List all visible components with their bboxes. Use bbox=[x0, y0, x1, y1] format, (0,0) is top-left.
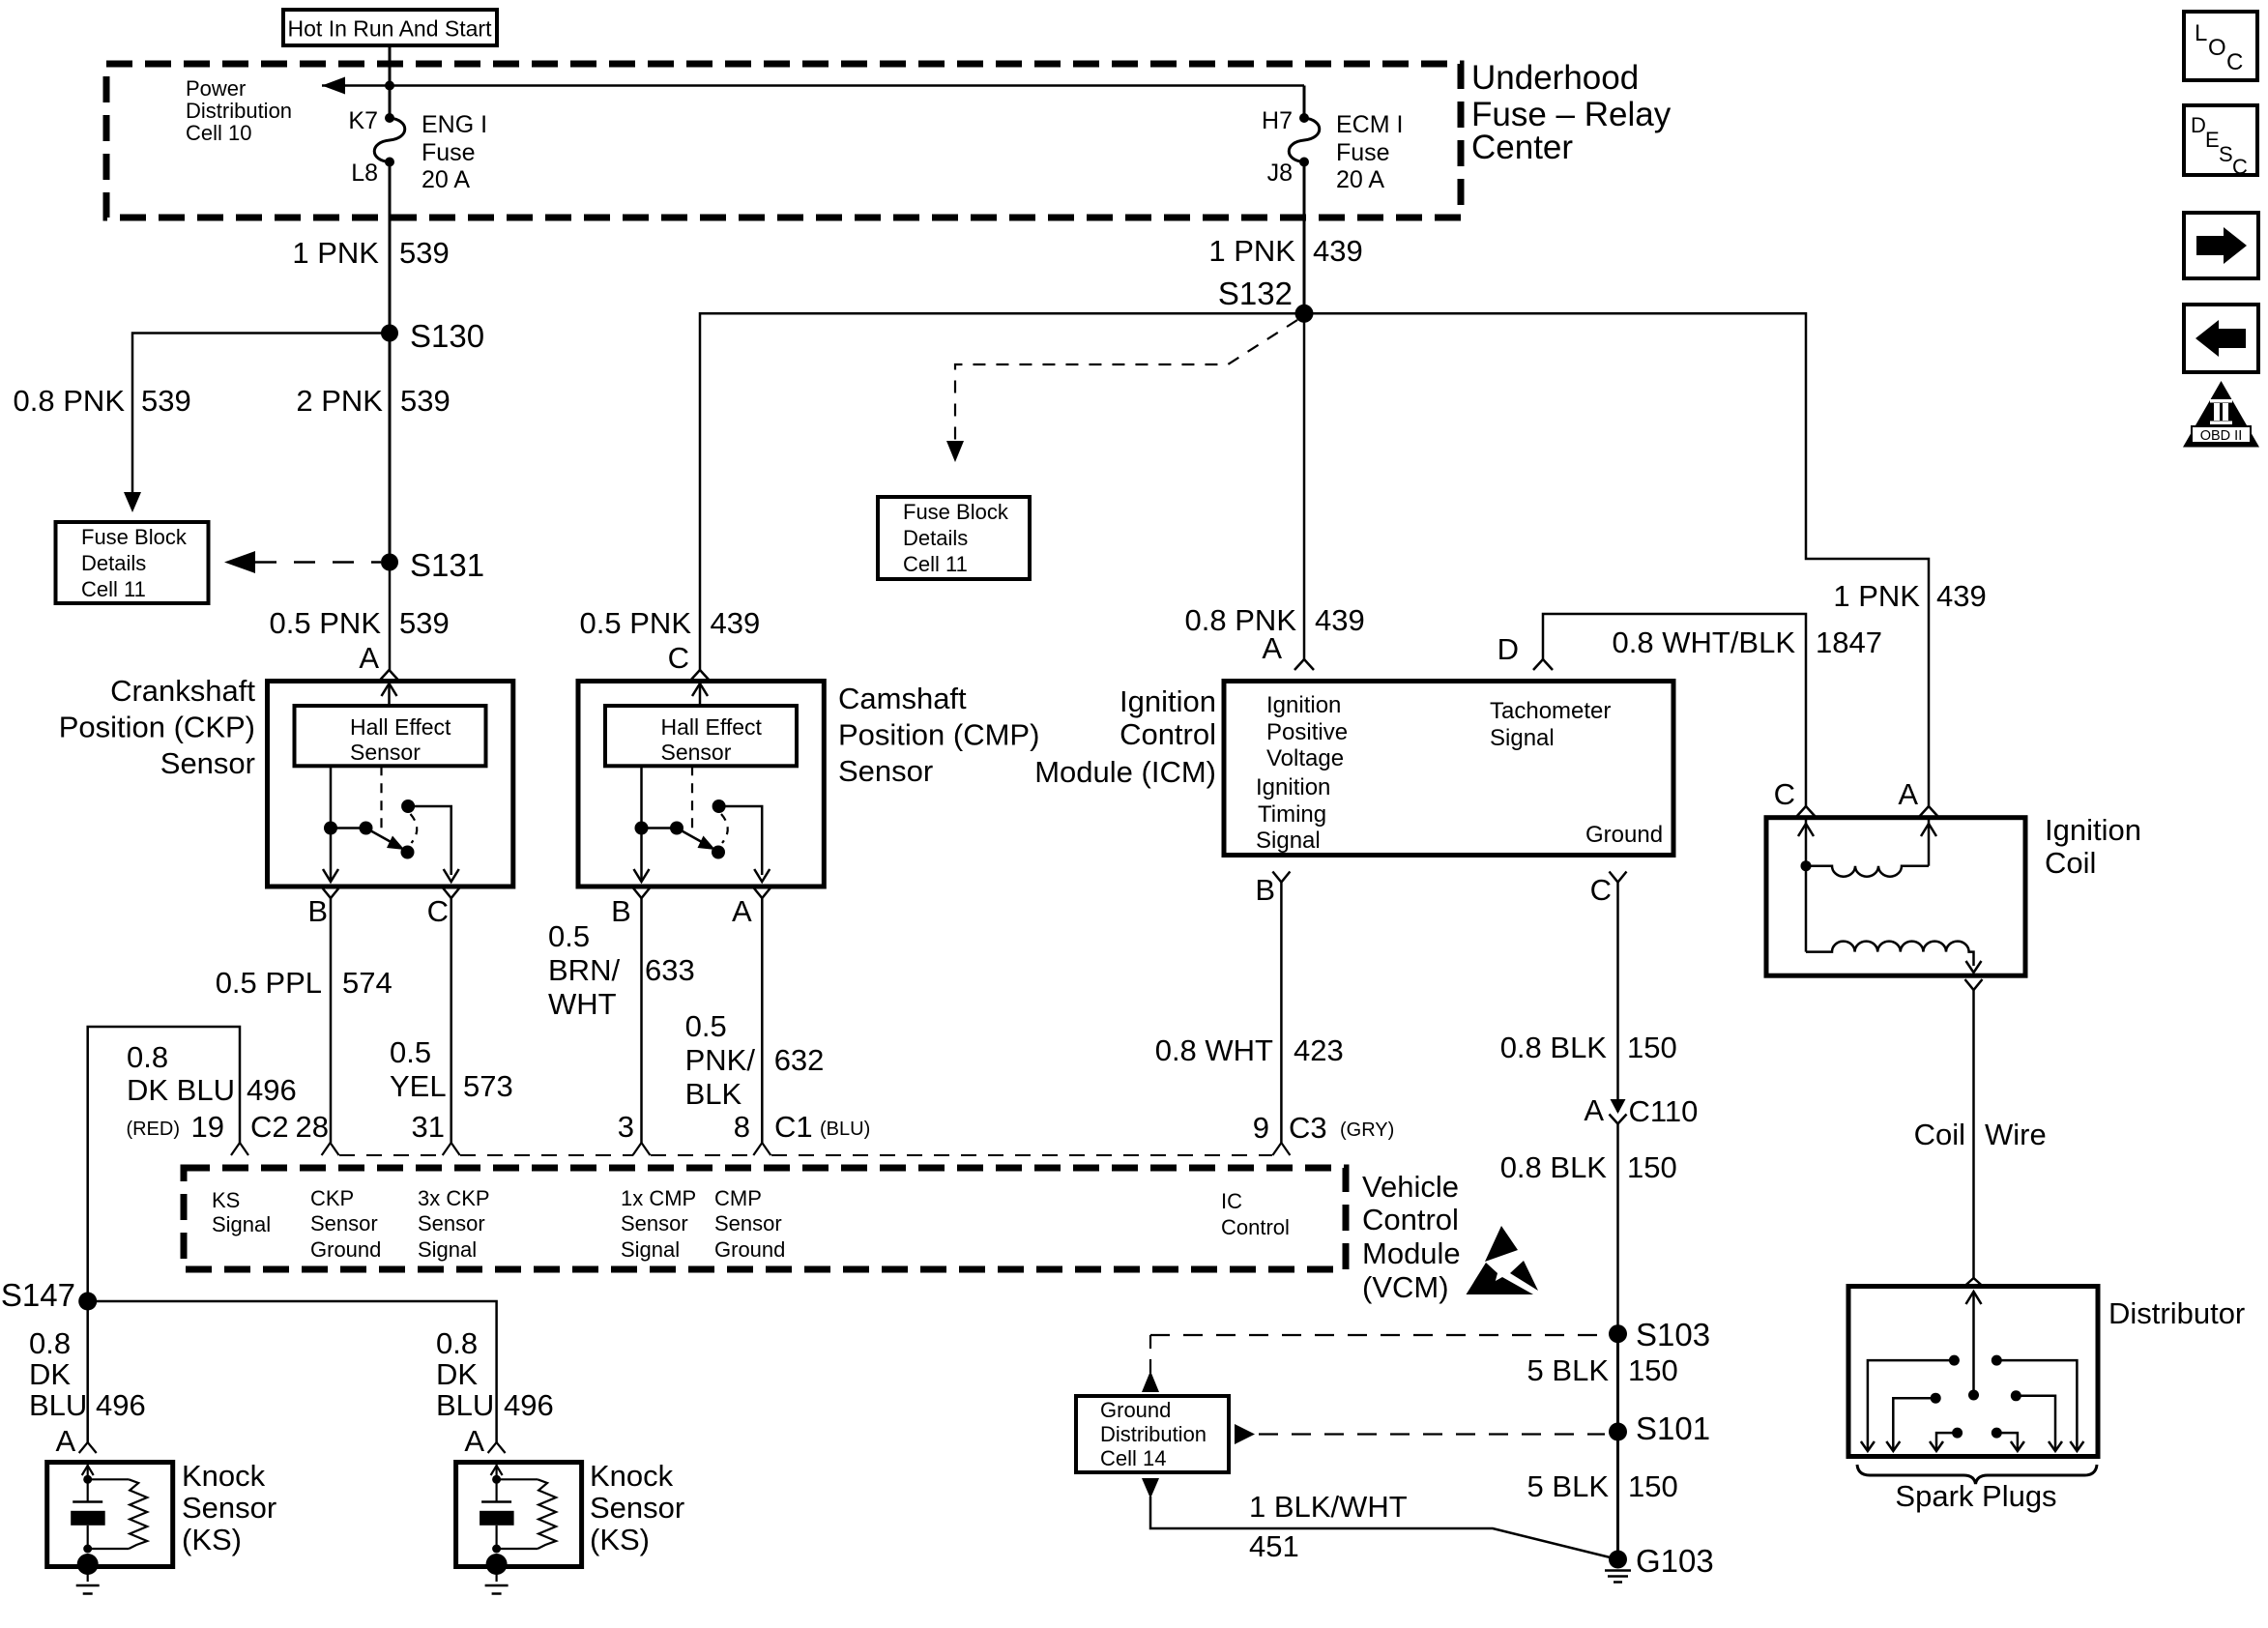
svg-text:Fuse Block: Fuse Block bbox=[903, 500, 1009, 524]
svg-text:Signal: Signal bbox=[212, 1212, 271, 1236]
svg-text:C: C bbox=[1590, 873, 1612, 907]
pin number labels along VCM top bbox=[126, 1110, 870, 1144]
box: Fuse Block Details Cell 11 (middle) bbox=[878, 497, 1030, 579]
svg-text:20 A: 20 A bbox=[422, 166, 470, 193]
svg-text:D: D bbox=[1497, 632, 1519, 666]
svg-text:(VCM): (VCM) bbox=[1362, 1270, 1449, 1304]
svg-text:PNK/: PNK/ bbox=[685, 1043, 756, 1077]
svg-text:Signal: Signal bbox=[1256, 828, 1321, 854]
svg-text:Cell 10: Cell 10 bbox=[186, 121, 251, 145]
svg-text:0.8 BLK: 0.8 BLK bbox=[1500, 1031, 1608, 1064]
svg-text:(GRY): (GRY) bbox=[1340, 1119, 1394, 1141]
svg-text:DK: DK bbox=[29, 1357, 71, 1391]
wire: coil secondary to distributor (Coil Wire) bbox=[1914, 979, 2047, 1278]
svg-text:Hall Effect: Hall Effect bbox=[350, 714, 451, 740]
svg-text:A: A bbox=[1898, 777, 1918, 811]
sensor: Crankshaft Position (CKP) Sensor bbox=[268, 641, 513, 887]
svg-text:Ground: Ground bbox=[1585, 822, 1663, 848]
svg-text:B: B bbox=[611, 894, 631, 928]
svg-text:H7: H7 bbox=[1262, 107, 1293, 134]
svg-text:BLU: BLU bbox=[29, 1388, 87, 1422]
svg-text:1 PNK: 1 PNK bbox=[1208, 234, 1295, 268]
svg-text:423: 423 bbox=[1294, 1033, 1344, 1067]
wire: S147 across to right knock sensor bbox=[88, 1301, 497, 1442]
svg-text:0.8: 0.8 bbox=[29, 1326, 71, 1360]
svg-text:CKP: CKP bbox=[310, 1186, 354, 1210]
sensor: Knock Sensor (KS) left bbox=[29, 1326, 146, 1422]
svg-text:(KS): (KS) bbox=[182, 1523, 242, 1556]
icon: OBD II triangle bbox=[2183, 381, 2259, 448]
svg-text:0.8 WHT/BLK: 0.8 WHT/BLK bbox=[1613, 625, 1796, 659]
label: Knock Sensor (KS) right bbox=[590, 1459, 684, 1556]
svg-text:0.8 BLK: 0.8 BLK bbox=[1500, 1150, 1608, 1184]
svg-text:C: C bbox=[2232, 155, 2248, 179]
connector carets into VCM (pins 19,28,31,3,8,9) bbox=[231, 1143, 1290, 1155]
wire: hot feed from label box down to fuse ENG I bbox=[389, 45, 392, 118]
svg-text:0.5 PNK: 0.5 PNK bbox=[270, 606, 382, 640]
svg-text:C: C bbox=[668, 641, 689, 675]
component: Distributor bbox=[1848, 1278, 2098, 1457]
node S132 bbox=[1218, 276, 1314, 323]
svg-text:439: 439 bbox=[1315, 603, 1365, 637]
svg-text:Sensor: Sensor bbox=[590, 1491, 684, 1525]
svg-text:A: A bbox=[732, 894, 752, 928]
wire: S103 to S101 (5 BLK 150) bbox=[1527, 1334, 1678, 1432]
label: Ignition Control Module (ICM) bbox=[1034, 684, 1216, 789]
svg-text:A: A bbox=[1262, 631, 1282, 665]
svg-text:Wire: Wire bbox=[1985, 1118, 2047, 1151]
svg-text:19: 19 bbox=[191, 1110, 224, 1144]
node G103 with ground symbol bbox=[1605, 1543, 1714, 1583]
svg-text:Sensor: Sensor bbox=[838, 754, 933, 788]
svg-text:3: 3 bbox=[618, 1110, 634, 1144]
svg-text:Module (ICM): Module (ICM) bbox=[1034, 755, 1216, 789]
svg-text:ECM I: ECM I bbox=[1336, 111, 1403, 138]
svg-text:WHT: WHT bbox=[548, 987, 617, 1021]
svg-text:0.5: 0.5 bbox=[548, 919, 590, 953]
svg-text:633: 633 bbox=[645, 953, 695, 987]
brace + label: Spark Plugs bbox=[1857, 1465, 2097, 1513]
svg-text:1 BLK/WHT: 1 BLK/WHT bbox=[1249, 1490, 1408, 1524]
svg-text:2 PNK: 2 PNK bbox=[296, 384, 383, 418]
svg-text:BRN/: BRN/ bbox=[548, 953, 620, 987]
svg-text:496: 496 bbox=[504, 1388, 554, 1422]
svg-text:Sensor: Sensor bbox=[160, 746, 255, 780]
component: Ignition Coil bbox=[1766, 777, 2025, 975]
svg-text:G103: G103 bbox=[1636, 1543, 1714, 1579]
svg-text:C3: C3 bbox=[1289, 1111, 1327, 1145]
VCM internal pin function labels bbox=[212, 1186, 1290, 1262]
wire: ICM B to VCM IC Control (0.8 WHT 423) bbox=[1155, 872, 1344, 1144]
svg-text:(BLU): (BLU) bbox=[820, 1119, 870, 1140]
label: Camshaft Position (CMP) Sensor bbox=[838, 682, 1039, 788]
connector forks below CMP: pins B and A bbox=[611, 887, 771, 928]
svg-text:ENG I: ENG I bbox=[422, 111, 487, 138]
fuse F2: ECM I Fuse 20 A (H7/J8) bbox=[1262, 86, 1403, 194]
svg-text:Coil: Coil bbox=[1914, 1118, 1965, 1151]
svg-text:Ground: Ground bbox=[714, 1237, 785, 1262]
svg-text:Ground: Ground bbox=[310, 1237, 381, 1262]
svg-text:E: E bbox=[2205, 128, 2220, 152]
wire: S132 branch left, down to CMP pin C bbox=[700, 313, 1304, 670]
svg-text:451: 451 bbox=[1249, 1529, 1299, 1563]
svg-text:439: 439 bbox=[1313, 234, 1363, 268]
svg-text:1 PNK: 1 PNK bbox=[1833, 579, 1920, 613]
svg-text:S: S bbox=[2219, 142, 2233, 166]
svg-text:C110: C110 bbox=[1629, 1094, 1699, 1128]
wire: VCM pin 19 up-left-down to S147 and knock sensors bbox=[88, 1027, 240, 1301]
svg-text:Ignition: Ignition bbox=[2045, 813, 2141, 847]
svg-text:Underhood: Underhood bbox=[1471, 59, 1639, 97]
label: 0.5 PNK 439 bbox=[580, 606, 761, 640]
svg-text:Control: Control bbox=[1119, 717, 1216, 751]
label: Underhood Fuse-Relay Center bbox=[1471, 59, 1672, 166]
svg-text:0.8: 0.8 bbox=[436, 1326, 478, 1360]
svg-text:S131: S131 bbox=[410, 547, 484, 583]
label: 2 PNK 539 bbox=[296, 384, 450, 418]
svg-text:1 PNK: 1 PNK bbox=[292, 236, 379, 270]
svg-text:CMP: CMP bbox=[714, 1186, 762, 1210]
svg-text:Crankshaft: Crankshaft bbox=[110, 674, 255, 708]
wire: CMP A to VCM pin 8 (0.5 PNK/BLK 632) bbox=[761, 898, 764, 1143]
svg-text:Ignition: Ignition bbox=[1119, 684, 1216, 718]
svg-text:OBD II: OBD II bbox=[2200, 428, 2243, 444]
svg-text:150: 150 bbox=[1628, 1469, 1678, 1503]
ESD static-sensitive symbol bbox=[1467, 1226, 1539, 1294]
label: 0.5 PNK 539 bbox=[270, 606, 450, 640]
svg-text:0.5: 0.5 bbox=[685, 1009, 727, 1043]
box: Ground Distribution Cell 14 bbox=[1076, 1396, 1229, 1472]
node: Hot In Run And Start feed label box bbox=[283, 10, 497, 45]
svg-text:L: L bbox=[2195, 20, 2207, 46]
svg-text:Hot In Run And Start: Hot In Run And Start bbox=[288, 16, 493, 42]
svg-text:C2: C2 bbox=[250, 1110, 289, 1144]
svg-text:J8: J8 bbox=[1267, 160, 1293, 187]
svg-text:Fuse Block: Fuse Block bbox=[81, 525, 188, 549]
connector C110 (pin A) bbox=[1584, 1093, 1698, 1128]
svg-text:A: A bbox=[1584, 1093, 1604, 1127]
connector forks below CKP: pins B and C bbox=[307, 887, 459, 928]
node S101 bbox=[1609, 1410, 1710, 1446]
svg-text:Spark Plugs: Spark Plugs bbox=[1895, 1479, 2056, 1513]
svg-text:Knock: Knock bbox=[590, 1459, 674, 1493]
svg-text:150: 150 bbox=[1627, 1031, 1677, 1064]
svg-text:Sensor: Sensor bbox=[350, 740, 421, 765]
svg-text:DK BLU: DK BLU bbox=[127, 1073, 235, 1107]
wire: S132 down to ICM pin A (0.8 PNK 439) bbox=[1303, 313, 1306, 659]
svg-text:B: B bbox=[307, 894, 328, 928]
box: Fuse Block Details Cell 11 (left) bbox=[56, 522, 209, 603]
svg-text:28: 28 bbox=[296, 1110, 329, 1144]
svg-text:Details: Details bbox=[903, 526, 968, 550]
svg-text:O: O bbox=[2208, 35, 2226, 61]
wire: ECM I fuse output down to S132 bbox=[1303, 162, 1306, 314]
svg-text:439: 439 bbox=[711, 606, 761, 640]
svg-text:1x CMP: 1x CMP bbox=[621, 1186, 696, 1210]
svg-text:Fuse: Fuse bbox=[422, 139, 476, 166]
svg-text:5 BLK: 5 BLK bbox=[1527, 1353, 1610, 1387]
svg-text:S130: S130 bbox=[410, 318, 484, 354]
svg-text:S101: S101 bbox=[1636, 1410, 1710, 1446]
svg-text:KS: KS bbox=[212, 1188, 240, 1212]
module: Ignition Control Module (ICM) bbox=[1224, 631, 1673, 856]
svg-text:Knock: Knock bbox=[182, 1459, 266, 1493]
label: Knock Sensor (KS) left bbox=[182, 1459, 276, 1556]
svg-text:Distribution: Distribution bbox=[186, 99, 292, 123]
svg-text:S147: S147 bbox=[1, 1277, 75, 1313]
svg-text:B: B bbox=[1255, 873, 1275, 907]
svg-text:Ground: Ground bbox=[1100, 1398, 1171, 1422]
svg-text:(KS): (KS) bbox=[590, 1523, 650, 1556]
underhood fuse-relay center dashed enclosure bbox=[106, 64, 1461, 218]
svg-text:3x CKP: 3x CKP bbox=[418, 1186, 490, 1210]
svg-text:0.5 PPL: 0.5 PPL bbox=[216, 966, 322, 1000]
svg-text:Position (CKP): Position (CKP) bbox=[59, 711, 255, 744]
icon: right arrow box bbox=[2184, 213, 2258, 278]
svg-text:Hall Effect: Hall Effect bbox=[661, 714, 763, 740]
wire: branch from S130 to Fuse Block Details (left) bbox=[124, 334, 390, 513]
svg-text:K7: K7 bbox=[348, 107, 378, 134]
dashed connector face line between VCM pins bbox=[339, 1154, 1272, 1156]
dashed drop from S132 to Fuse Block Details (middle) bbox=[946, 320, 1297, 462]
svg-text:Cell 11: Cell 11 bbox=[903, 552, 968, 576]
svg-text:BLK: BLK bbox=[685, 1077, 742, 1111]
svg-text:Module: Module bbox=[1362, 1236, 1461, 1270]
svg-text:Tachometer: Tachometer bbox=[1490, 698, 1611, 724]
svg-text:A: A bbox=[464, 1424, 484, 1458]
svg-text:C: C bbox=[1774, 777, 1795, 811]
svg-text:539: 539 bbox=[399, 606, 450, 640]
node S147 bbox=[1, 1277, 97, 1313]
svg-text:Control: Control bbox=[1221, 1215, 1290, 1239]
svg-text:Signal: Signal bbox=[418, 1237, 477, 1262]
icon: DESC box bbox=[2184, 105, 2257, 179]
svg-text:Vehicle: Vehicle bbox=[1362, 1170, 1459, 1204]
svg-text:0.8: 0.8 bbox=[127, 1040, 168, 1074]
svg-text:Control: Control bbox=[1362, 1203, 1459, 1236]
svg-text:0.8 PNK: 0.8 PNK bbox=[14, 384, 126, 418]
icon: LOC box bbox=[2184, 12, 2257, 80]
svg-text:Coil: Coil bbox=[2045, 846, 2096, 880]
wire: S130 down to S131 bbox=[389, 334, 392, 563]
wire: ICM C ground wire (0.8 BLK 150) bbox=[1500, 872, 1677, 1113]
node S103 bbox=[1609, 1317, 1710, 1352]
node S131 with dashed arrow to fuse block bbox=[224, 547, 484, 583]
svg-text:Sensor: Sensor bbox=[714, 1211, 782, 1236]
svg-text:150: 150 bbox=[1627, 1150, 1677, 1184]
label: Ignition Coil bbox=[2045, 813, 2141, 880]
svg-text:8: 8 bbox=[734, 1110, 750, 1144]
svg-text:Center: Center bbox=[1471, 129, 1573, 166]
svg-text:Sensor: Sensor bbox=[182, 1491, 276, 1525]
svg-text:DK: DK bbox=[436, 1357, 478, 1391]
svg-text:A: A bbox=[56, 1424, 76, 1458]
wire: ICM pin D up and over to coil pin C (0.8 WHT/BLK 1847) bbox=[1497, 614, 1882, 806]
svg-text:0.8 WHT: 0.8 WHT bbox=[1155, 1033, 1273, 1067]
svg-text:439: 439 bbox=[1936, 579, 1987, 613]
svg-text:539: 539 bbox=[141, 384, 191, 418]
label: 1 PNK 439 (center) bbox=[1208, 234, 1362, 268]
wire: S131 down to CKP sensor pin A bbox=[389, 563, 392, 671]
svg-text:D: D bbox=[2191, 113, 2206, 137]
svg-text:Sensor: Sensor bbox=[418, 1211, 485, 1236]
label: 1 PNK 539 bbox=[292, 236, 449, 270]
svg-text:31: 31 bbox=[412, 1110, 445, 1144]
wire: S147 down to left knock sensor bbox=[86, 1301, 89, 1442]
wire: ground distribution to G103 (1 BLK/WHT 451) bbox=[1142, 1478, 1618, 1563]
svg-text:1847: 1847 bbox=[1816, 625, 1882, 659]
svg-text:539: 539 bbox=[400, 384, 451, 418]
svg-text:BLU: BLU bbox=[436, 1388, 494, 1422]
svg-text:0.5 PNK: 0.5 PNK bbox=[580, 606, 692, 640]
svg-text:573: 573 bbox=[463, 1069, 513, 1103]
svg-text:539: 539 bbox=[399, 236, 450, 270]
svg-text:Ignition: Ignition bbox=[1266, 692, 1341, 718]
fuse F1: ENG I Fuse 20 A (K7/L8) bbox=[348, 107, 487, 193]
wire: CKP C to VCM pin 31 (0.5 YEL 573) bbox=[450, 898, 452, 1143]
svg-text:Cell 11: Cell 11 bbox=[81, 577, 146, 601]
svg-text:Signal: Signal bbox=[1490, 725, 1555, 751]
dashed link: ground distribution up to S103 bbox=[1142, 1335, 1605, 1392]
svg-text:0.5: 0.5 bbox=[390, 1035, 431, 1069]
svg-text:C: C bbox=[427, 894, 449, 928]
svg-text:20 A: 20 A bbox=[1336, 166, 1384, 193]
svg-text:YEL: YEL bbox=[390, 1069, 447, 1103]
svg-text:C1: C1 bbox=[774, 1110, 813, 1144]
wire: S101 to G103 (5 BLK 150) bbox=[1527, 1432, 1678, 1559]
wire: CMP B to VCM pin 3 (0.5 BRN/WHT 633) bbox=[640, 898, 643, 1143]
svg-text:Timing: Timing bbox=[1258, 801, 1326, 828]
wire: ENG I fuse output down to S130 bbox=[389, 162, 392, 334]
svg-text:Details: Details bbox=[81, 551, 146, 575]
module: Vehicle Control Module (VCM) dashed outline bbox=[184, 1168, 1346, 1269]
svg-text:Sensor: Sensor bbox=[310, 1211, 378, 1236]
wire: arrow line to Power Distribution (points left) bbox=[322, 77, 1304, 95]
icon: left arrow box bbox=[2184, 305, 2258, 372]
svg-text:Camshaft: Camshaft bbox=[838, 682, 967, 715]
label: 0.8 PNK 539 bbox=[14, 384, 191, 418]
svg-text:C: C bbox=[2226, 49, 2243, 75]
label: Vehicle Control Module (VCM) bbox=[1362, 1170, 1461, 1304]
svg-text:Positive: Positive bbox=[1266, 719, 1348, 745]
svg-text:9: 9 bbox=[1253, 1111, 1269, 1145]
svg-text:Cell 14: Cell 14 bbox=[1100, 1446, 1166, 1470]
wire: CKP B to VCM pin 28 (0.5 PPL 574) bbox=[330, 898, 333, 1143]
dashed link: ground distribution right to S101 bbox=[1235, 1424, 1605, 1444]
svg-text:Sensor: Sensor bbox=[661, 740, 732, 765]
label: Crankshaft Position (CKP) Sensor bbox=[59, 674, 256, 780]
svg-text:S103: S103 bbox=[1636, 1317, 1710, 1352]
svg-text:5 BLK: 5 BLK bbox=[1527, 1469, 1610, 1503]
svg-text:632: 632 bbox=[774, 1043, 825, 1077]
svg-text:S132: S132 bbox=[1218, 276, 1293, 311]
wire: C110 down to S103 (0.8 BLK 150) bbox=[1500, 1124, 1677, 1334]
svg-text:IC: IC bbox=[1221, 1189, 1242, 1213]
svg-text:Sensor: Sensor bbox=[621, 1211, 688, 1236]
svg-text:150: 150 bbox=[1628, 1353, 1678, 1387]
sensor: Camshaft Position (CMP) Sensor bbox=[578, 641, 824, 887]
svg-text:Position (CMP): Position (CMP) bbox=[838, 718, 1039, 752]
sensor: Knock Sensor (KS) right bbox=[436, 1326, 554, 1422]
node S130 bbox=[381, 318, 484, 354]
svg-text:496: 496 bbox=[96, 1388, 146, 1422]
wire: S132 right and over to coil pin A (1 PNK 439) bbox=[1304, 313, 1987, 806]
svg-text:Distributor: Distributor bbox=[2108, 1296, 2245, 1330]
connector label: 9 C3 (GRY) bbox=[1253, 1111, 1395, 1145]
label: 0.8 DK BLU 496 (RED) 19 stack bbox=[127, 1040, 297, 1107]
svg-text:(RED): (RED) bbox=[126, 1119, 180, 1140]
svg-text:L8: L8 bbox=[351, 160, 378, 187]
svg-text:Distribution: Distribution bbox=[1100, 1422, 1207, 1446]
svg-text:A: A bbox=[359, 641, 379, 675]
svg-text:574: 574 bbox=[342, 966, 393, 1000]
svg-text:Ignition: Ignition bbox=[1256, 774, 1330, 800]
label: Power Distribution Cell 10 bbox=[186, 76, 292, 145]
svg-text:Signal: Signal bbox=[621, 1237, 680, 1262]
svg-text:Power: Power bbox=[186, 76, 246, 101]
svg-text:Voltage: Voltage bbox=[1266, 745, 1344, 771]
svg-text:Fuse: Fuse bbox=[1336, 139, 1390, 166]
svg-text:496: 496 bbox=[247, 1073, 297, 1107]
